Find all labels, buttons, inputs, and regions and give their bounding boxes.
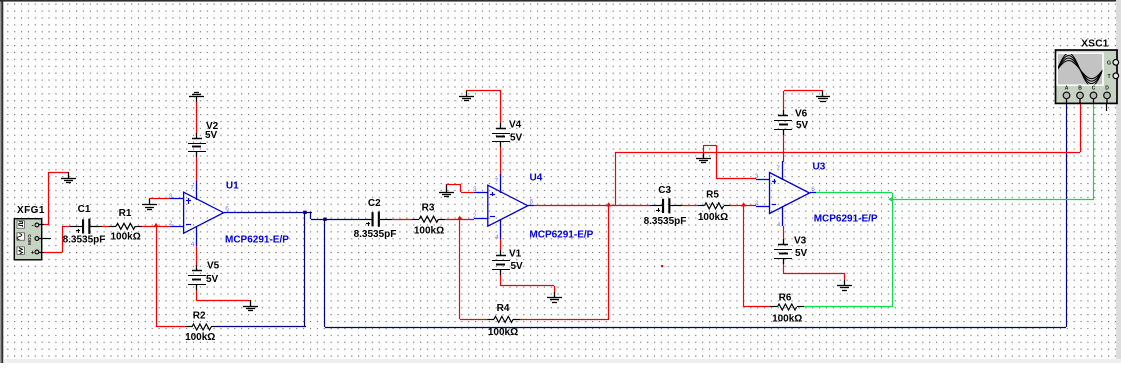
wire scope D stub — [1106, 103, 1108, 111]
svg-text:100kΩ: 100kΩ — [414, 226, 444, 237]
svg-text:-: - — [32, 223, 34, 229]
wire to oscilloscope channel C (green) — [892, 199, 1094, 201]
svg-text:5V: 5V — [511, 261, 524, 272]
wire XFG1 top terminal to ground — [39, 224, 44, 226]
junction (R3 / R4 feedback node) — [457, 216, 462, 220]
wire V3 to ground — [783, 264, 785, 274]
junction U3 out / scope C branch — [888, 197, 892, 202]
wire feedback node down to R4 — [459, 219, 461, 319]
svg-text:D: D — [1105, 85, 1109, 91]
svg-text:100kΩ: 100kΩ — [110, 232, 140, 243]
svg-text:5V: 5V — [206, 274, 219, 285]
svg-text:U3: U3 — [813, 161, 826, 172]
battery V3 — [783, 239, 785, 245]
resistor R6 — [770, 306, 777, 308]
svg-text:5V: 5V — [205, 130, 218, 141]
ground above V4 — [466, 91, 468, 97]
svg-text:C1: C1 — [78, 204, 91, 215]
svg-text:COM: COM — [27, 234, 32, 245]
svg-text:A: A — [1065, 85, 1069, 91]
svg-text:6: 6 — [811, 186, 815, 193]
op-amp U1 — [184, 192, 224, 233]
svg-text:C: C — [1092, 85, 1096, 91]
junction U1 out / R2 branch — [303, 211, 306, 214]
resistor R1 — [109, 226, 116, 228]
resistor R4 — [487, 319, 494, 321]
wire U4 output to C3 (stage 3 input) — [534, 205, 650, 207]
svg-text:5V: 5V — [510, 133, 523, 144]
wire R6 right to U3 output (green) — [804, 306, 892, 308]
bottom rail to oscilloscope channel A (navy) — [325, 327, 1066, 329]
wire down to R2 (navy) — [304, 212, 306, 327]
wire V2 to U1 pin 7 — [196, 157, 198, 182]
wire XFG1 bottom terminal to C1 — [39, 252, 44, 254]
svg-text:3: 3 — [473, 186, 477, 193]
op-amp U3 — [770, 173, 810, 214]
junction (R5 / R6 feedback node) — [741, 202, 746, 206]
battery V4 — [500, 123, 502, 128]
svg-text:V6: V6 — [795, 108, 808, 119]
ground (input top-left) — [68, 172, 70, 178]
svg-text:G: G — [1107, 61, 1111, 67]
resistor R3 — [412, 219, 419, 221]
wire R5 to U3 inverting input — [730, 205, 756, 207]
wire ground to U1 + input — [149, 198, 170, 200]
svg-text:100kΩ: 100kΩ — [772, 314, 802, 325]
oscilloscope XSC1 — [1056, 50, 1118, 103]
wire U3 pin 4 to V3 — [783, 226, 785, 239]
ground right of V6 — [822, 91, 824, 97]
svg-text:V3: V3 — [794, 236, 807, 247]
svg-text:100kΩ: 100kΩ — [488, 327, 518, 338]
svg-text:6: 6 — [225, 206, 229, 213]
svg-text:V4: V4 — [509, 120, 522, 131]
wire C3 to R5 — [682, 205, 698, 207]
svg-text:R5: R5 — [706, 189, 719, 200]
resistor R5 — [698, 205, 704, 207]
svg-text:R2: R2 — [193, 311, 206, 322]
battery V2 — [196, 133, 198, 138]
capacitor C1 — [70, 226, 82, 228]
junction U1 out / scope A branch — [323, 218, 326, 221]
wire V4 to U4 pin 7 — [500, 147, 502, 175]
svg-text:7: 7 — [776, 165, 780, 172]
ground (V1) — [554, 292, 556, 298]
svg-text:8.3535pF: 8.3535pF — [63, 235, 106, 246]
svg-text:7: 7 — [190, 185, 194, 192]
wire U3 output (green) — [816, 192, 892, 194]
svg-text:B: B — [1078, 85, 1082, 91]
wire feedback node down to R2 — [156, 226, 158, 327]
junction (R1 / R2 feedback node) — [153, 223, 158, 227]
ground (U4 non-inverting input) — [446, 184, 448, 192]
ground (V3) — [844, 280, 846, 286]
svg-text:MCP6291-E/P: MCP6291-E/P — [529, 230, 593, 241]
function generator XFG1 — [14, 219, 41, 260]
wire ground bend to U4 + input — [446, 184, 461, 186]
window frame edges — [0, 0, 1, 363]
svg-text:R1: R1 — [119, 208, 132, 219]
wire R3 to U4 inverting input — [445, 219, 474, 221]
svg-text:R6: R6 — [779, 292, 792, 303]
wire R1 to U1 inverting input — [142, 226, 170, 228]
wire ground to V6 — [784, 90, 823, 92]
svg-text:MCP6291-E/P: MCP6291-E/P — [225, 234, 289, 245]
wire XFG1 middle terminal stub — [39, 238, 51, 240]
wire down to bottom rail (navy) — [324, 219, 326, 327]
svg-text:5V: 5V — [796, 120, 809, 131]
svg-text:100kΩ: 100kΩ — [698, 212, 728, 223]
svg-text:4: 4 — [777, 222, 781, 229]
svg-text:C2: C2 — [368, 198, 381, 209]
ground above V2 (inverted) — [194, 92, 199, 94]
battery V5 — [196, 265, 198, 271]
svg-text:8.3535pF: 8.3535pF — [354, 229, 397, 240]
wire C1 to R1 — [102, 226, 109, 228]
svg-text:XSC1: XSC1 — [1081, 38, 1108, 49]
svg-text:R3: R3 — [422, 202, 435, 213]
stray junction dot — [661, 265, 663, 267]
svg-text:MCP6291-E/P: MCP6291-E/P — [814, 214, 878, 225]
svg-text:8.3535pF: 8.3535pF — [644, 216, 687, 227]
svg-text:U4: U4 — [530, 172, 543, 183]
svg-text:C3: C3 — [658, 185, 671, 196]
wire V5 to ground — [196, 290, 198, 300]
wire V6 to U3 pin 7 — [783, 135, 785, 162]
svg-text:4: 4 — [495, 234, 499, 241]
wire ground to V2 — [196, 102, 198, 133]
wire V1 to ground — [500, 275, 502, 286]
wire U4 output node up to scope channel B rail — [615, 152, 617, 206]
capacitor C2 — [360, 219, 372, 221]
svg-text:6: 6 — [529, 199, 533, 206]
wire feedback node down to R6 — [743, 206, 745, 307]
op-amp U4 — [488, 185, 528, 226]
svg-text:4: 4 — [191, 241, 195, 248]
svg-text:7: 7 — [494, 178, 498, 185]
ground staple (U3 non-inverting input) — [704, 145, 716, 147]
junction U4 out / R4 feedback — [606, 202, 611, 206]
svg-text:R4: R4 — [497, 303, 510, 314]
svg-text:V5: V5 — [207, 261, 220, 272]
svg-text:2: 2 — [473, 213, 477, 220]
wire ground to V4 — [466, 90, 501, 92]
wire U4 pin 4 to V1 — [500, 239, 502, 250]
wire U1 output net (navy) — [237, 212, 312, 214]
svg-text:U1: U1 — [226, 181, 239, 192]
wire U1 pin 4 to V5 — [196, 246, 198, 266]
battery V1 — [500, 250, 502, 256]
svg-text:3: 3 — [755, 173, 759, 180]
ground (U1 non-inverting input) — [149, 199, 151, 205]
svg-text:XFG1: XFG1 — [17, 205, 45, 216]
svg-text:3: 3 — [169, 193, 173, 200]
svg-text:V1: V1 — [509, 249, 522, 260]
svg-text:5V: 5V — [795, 248, 808, 259]
svg-text:2: 2 — [169, 220, 173, 227]
resistor R2 — [185, 326, 192, 328]
wire R4 right to U4 output node — [520, 319, 609, 321]
svg-text:100kΩ: 100kΩ — [185, 332, 215, 343]
ground (V5) — [250, 300, 252, 306]
capacitor C3 — [650, 205, 662, 207]
svg-text:2: 2 — [755, 200, 759, 207]
battery V6 — [783, 110, 785, 116]
svg-text:+: + — [31, 251, 35, 257]
wire C2 to R3 — [392, 219, 412, 221]
